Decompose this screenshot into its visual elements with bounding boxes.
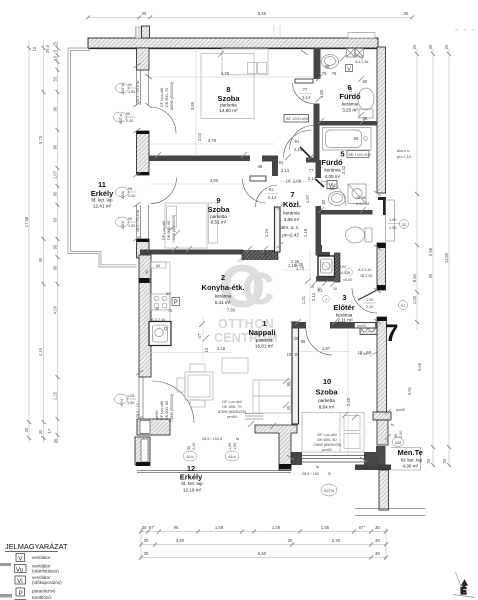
svg-text:3,91: 3,91: [407, 386, 412, 395]
kitchen counter strip: [150, 262, 170, 322]
svg-text:8: 8: [226, 85, 230, 94]
svg-text:2,42: 2,42: [348, 87, 353, 96]
svg-text:1: 1: [262, 319, 266, 328]
armchair nappali: [222, 358, 248, 373]
appliance: washing machine box entry: [318, 256, 335, 277]
svg-text:fa: fa: [236, 437, 240, 441]
svg-text:A5/a: A5/a: [121, 190, 125, 199]
svg-text:kerámia: kerámia: [215, 294, 232, 299]
edge bars bottom left: [0, 563, 11, 566]
svg-text:91: 91: [269, 187, 274, 192]
dim chain: right vertical lines: [417, 48, 449, 467]
svg-text:30: 30: [375, 538, 380, 543]
svg-text:28,5 / 94,5 fa: 28,5 / 94,5 fa: [136, 209, 140, 232]
svg-text:1,58: 1,58: [215, 525, 224, 530]
svg-text:8: 8: [348, 271, 350, 275]
svg-text:2,02: 2,02: [197, 132, 202, 141]
svg-text:30: 30: [24, 427, 29, 432]
svg-text:25: 25: [295, 352, 300, 357]
svg-text:DF Lux-uNi: DF Lux-uNi: [160, 401, 164, 420]
door size labels interior: [265, 87, 323, 301]
svg-text:65: 65: [354, 136, 359, 141]
svg-text:-0,02: -0,02: [340, 271, 348, 275]
wall: corridor/kitchen divider: [275, 207, 281, 252]
door leaf: bath5 door: [316, 179, 325, 187]
svg-text:10: 10: [286, 179, 291, 184]
svg-text:17,68: 17,68: [24, 216, 29, 227]
door arc: bath5: [321, 181, 346, 206]
svg-text:30: 30: [144, 538, 149, 543]
svg-text:A5T/d: A5T/d: [119, 114, 123, 124]
svg-text:2,40: 2,40: [399, 431, 403, 438]
svg-text:P: P: [19, 590, 23, 597]
appliance: stove kitchen: [151, 294, 170, 310]
wall: L-block left bottom: [137, 419, 170, 435]
room label: 2 Konyha: [202, 273, 245, 313]
dim labels: right chains: [407, 44, 449, 463]
annotation: nappali balcony door texts: [136, 393, 174, 422]
wall: stub at room9 top right: [262, 156, 278, 177]
svg-text:parketta: parketta: [318, 398, 335, 403]
svg-text:2,14: 2,14: [268, 251, 273, 260]
svg-text:1,00: 1,00: [366, 298, 373, 302]
svg-text:30: 30: [142, 11, 147, 16]
svg-text:+0,02: +0,02: [337, 265, 346, 269]
wall: left exterior upper segment A: [137, 48, 150, 70]
svg-text:3,80: 3,80: [210, 178, 219, 183]
svg-text:11: 11: [98, 180, 106, 189]
dim chain: left vertical lines: [29, 40, 58, 443]
window: nappali to balcony12: [245, 414, 263, 420]
svg-text:25: 25: [53, 41, 58, 46]
svg-text:DK 600- 70: DK 600- 70: [165, 88, 169, 107]
svg-text:A.3 2,44: A.3 2,44: [151, 318, 165, 322]
appliance: sink unit kitchen: [149, 322, 171, 346]
rug room 8: [201, 54, 254, 119]
wardrobe room 9: [209, 203, 218, 243]
window: room 8 balcony window: [137, 70, 149, 105]
wall: wc west: [316, 214, 322, 247]
svg-text:Vi: Vi: [17, 578, 23, 585]
svg-text:90: 90: [428, 273, 433, 278]
dim ticks: left chains: [27, 46, 60, 440]
svg-text:7,60: 7,60: [227, 308, 236, 313]
svg-text:96: 96: [53, 106, 58, 111]
small circle labels entry: [323, 269, 353, 303]
svg-text:90: 90: [145, 270, 149, 274]
wall: wc bottom stub: [316, 245, 331, 256]
svg-text:5,66: 5,66: [417, 362, 422, 371]
svg-text:1,31: 1,31: [301, 295, 306, 304]
svg-text:±0,00: ±0,00: [343, 278, 352, 282]
room label: 12 Erkely: [180, 464, 203, 493]
svg-text:2,05: 2,05: [389, 226, 396, 230]
svg-text:1,25: 1,25: [53, 391, 58, 400]
annotation: entry door size: [364, 298, 376, 309]
svg-text:2,14: 2,14: [308, 176, 317, 181]
svg-text:1,50: 1,50: [128, 90, 135, 94]
svg-text:30: 30: [288, 538, 293, 543]
parapet: balcony 11: [68, 48, 137, 267]
labels: kitchen small dims: [145, 264, 172, 313]
svg-text:11,85: 11,85: [444, 252, 449, 263]
dim labels: left chains (rotated): [24, 41, 58, 443]
svg-text:30: 30: [375, 551, 380, 556]
svg-text:1,00: 1,00: [389, 218, 396, 222]
svg-text:2,10: 2,10: [366, 305, 373, 309]
wall: block above terrace band: [376, 446, 386, 465]
sink bath5: [329, 192, 346, 206]
svg-text:70: 70: [322, 71, 327, 76]
svg-text:kerámia: kerámia: [324, 168, 341, 173]
svg-text:parketta: parketta: [210, 214, 227, 219]
svg-text:Vu: Vu: [16, 566, 24, 573]
svg-text:70: 70: [168, 309, 172, 313]
svg-text:48: 48: [258, 164, 263, 169]
svg-text:DK 600- 70: DK 600- 70: [222, 405, 241, 409]
wall: faint lines above band center: [274, 25, 280, 38]
annotation: Men.Te side: [391, 423, 403, 438]
svg-text:10: 10: [358, 350, 363, 355]
sink bath6: [322, 55, 339, 69]
symbol V box bath6: [346, 65, 353, 73]
slab: below terrace: [355, 509, 425, 516]
svg-text:1,87: 1,87: [322, 346, 331, 351]
wall: left exterior lower (kitchen) segment D: [139, 255, 151, 377]
annotation: room9 window DF text: [162, 214, 176, 243]
svg-text:1,00: 1,00: [412, 295, 417, 304]
svg-text:pm90: pm90: [357, 324, 367, 328]
svg-text:1,35: 1,35: [295, 262, 304, 267]
bed room 10: [302, 413, 364, 453]
svg-text:1,24: 1,24: [264, 228, 269, 237]
svg-text:25,5: 25,5: [45, 44, 50, 53]
svg-text:1,26: 1,26: [272, 525, 281, 530]
svg-text:10: 10: [287, 352, 292, 357]
svg-text:58: 58: [367, 350, 372, 355]
svg-text:BE 1200-600: BE 1200-600: [349, 153, 371, 157]
svg-text:5!: 5!: [328, 472, 331, 476]
wall: L balcony12 right: [255, 425, 297, 470]
svg-text:DK 600- 60: DK 600- 60: [165, 401, 169, 420]
svg-text:16,81 m²: 16,81 m²: [255, 344, 274, 349]
svg-text:95: 95: [128, 187, 132, 191]
svg-text:12,19 m²: 12,19 m²: [183, 488, 202, 493]
annotation: balcony12 window size + circles: [187, 437, 240, 450]
svg-text:A7d: A7d: [120, 399, 124, 406]
svg-text:10: 10: [333, 287, 337, 291]
svg-text:4,05 m²: 4,05 m²: [325, 174, 341, 179]
svg-text:pm90: pm90: [155, 411, 159, 421]
svg-text:2,14: 2,14: [302, 95, 311, 100]
svg-text:20.16!: 20.16!: [356, 196, 366, 200]
svg-text:3,25 m²: 3,25 m²: [342, 108, 358, 113]
room label: 9 Szoba: [207, 196, 230, 225]
svg-text:600W (65/60/20): 600W (65/60/20): [170, 81, 174, 110]
svg-text:3,90: 3,90: [176, 538, 185, 543]
svg-text:50: 50: [363, 79, 368, 84]
svg-text:95: 95: [174, 525, 179, 530]
svg-text:90: 90: [38, 257, 43, 262]
svg-text:törölköző-: törölköző-: [32, 595, 53, 600]
wall: notch above top band right: [348, 33, 375, 39]
label box: BE 1200-600 bath5: [347, 151, 371, 158]
svg-text:V: V: [18, 555, 23, 562]
svg-text:30: 30: [38, 429, 43, 434]
svg-text:Men.Te: Men.Te: [398, 448, 423, 457]
window: room10 bottom: [290, 452, 377, 466]
svg-text:90: 90: [128, 217, 132, 221]
svg-text:1,50: 1,50: [228, 443, 232, 450]
dim ticks: bottom chains: [139, 530, 388, 560]
room label: 11 Erkely: [91, 180, 114, 209]
svg-text:fd. ker. lap: fd. ker. lap: [91, 198, 113, 203]
svg-text:95: 95: [126, 112, 130, 116]
dim chain: top horizontal: [86, 11, 414, 20]
svg-text:52°: 52°: [166, 292, 172, 296]
svg-text:746W (65/50/20): 746W (65/50/20): [170, 393, 174, 422]
svg-text:3,88 m²: 3,88 m²: [284, 217, 300, 222]
symbol Vu box bath5: [327, 181, 337, 190]
svg-text:1,57: 1,57: [305, 194, 310, 203]
svg-text:A.5 2,40: A.5 2,40: [358, 268, 371, 272]
wall: room10 top left piece: [292, 322, 306, 329]
svg-text:pv=2,19: pv=2,19: [396, 155, 412, 159]
svg-text:2: 2: [325, 298, 327, 302]
svg-text:25: 25: [444, 44, 449, 49]
door arc: room8 lower door: [290, 126, 314, 150]
wall: right exterior segment lower: [377, 317, 387, 412]
wall: room10 top right piece with pm90: [330, 322, 377, 329]
svg-text:álm.s.s.:: álm.s.s.:: [397, 149, 411, 153]
svg-text:30: 30: [142, 525, 147, 530]
svg-text:1,50: 1,50: [233, 443, 237, 450]
wall: kitchen top (room9/kitchen): [140, 250, 243, 255]
svg-text:1,08: 1,08: [293, 179, 302, 184]
door arc: entry: [352, 288, 377, 313]
wall: left exterior segment C: [137, 239, 150, 258]
svg-text:90: 90: [53, 265, 58, 270]
legend Vi: [15, 576, 26, 584]
svg-text:7: 7: [385, 320, 398, 347]
door arc: bath6: [293, 83, 314, 104]
svg-text:5: 5: [53, 49, 58, 52]
svg-text:5,75: 5,75: [38, 135, 43, 144]
svg-text:30: 30: [375, 525, 380, 530]
svg-text:fa: fa: [316, 465, 320, 469]
svg-text:2,42: 2,42: [341, 165, 346, 174]
svg-text:60: 60: [156, 264, 160, 268]
svg-text:55: 55: [330, 186, 335, 191]
bed room 8: [222, 49, 268, 75]
dim chain: bottom horizontal 3 lines: [141, 528, 386, 560]
svg-text:(időkapcsolós): (időkapcsolós): [32, 580, 62, 585]
svg-text:A.4.2.48: A.4.2.48: [355, 60, 368, 64]
wall: hatched block kitchen top right: [242, 251, 278, 260]
svg-text:2,11 m²: 2,11 m²: [337, 318, 353, 323]
svg-text:28,5 / 12: 28,5 / 12: [136, 403, 140, 418]
annotation: room10 window DF text: [313, 433, 342, 452]
symbol: P box kitchen: [172, 298, 180, 307]
svg-text:28,5 / 154,5: 28,5 / 154,5: [202, 437, 222, 441]
svg-text:8,64 m²: 8,64 m²: [319, 405, 335, 410]
svg-text:1,19: 1,19: [303, 228, 308, 237]
svg-text:pm90: pm90: [227, 415, 237, 419]
svg-text:4,00: 4,00: [53, 305, 58, 314]
svg-text:DF Lux-uNi: DF Lux-uNi: [160, 88, 164, 107]
svg-text:6,50: 6,50: [258, 551, 267, 556]
svg-text:A1/d: A1/d: [186, 455, 193, 459]
svg-text:A.5.2.48: A.5.2.48: [356, 202, 369, 206]
room label: 7 Kozl: [281, 190, 301, 238]
svg-text:fd. ker. lap: fd. ker. lap: [181, 481, 203, 486]
svg-text:36: 36: [155, 307, 159, 311]
terrace edge lines: [391, 448, 421, 471]
svg-text:2,40: 2,40: [192, 443, 196, 450]
svg-text:77: 77: [309, 168, 314, 173]
interior dim labels: [190, 64, 372, 410]
svg-text:Közl.: Közl.: [283, 200, 301, 209]
shower bath5: [348, 184, 366, 204]
svg-text:12,41 m²: 12,41 m²: [93, 204, 112, 209]
door arc: room8 balcony door: [150, 107, 176, 133]
svg-text:4T: 4T: [197, 333, 202, 338]
svg-text:90: 90: [128, 83, 132, 87]
svg-text:fx: fx: [391, 423, 394, 427]
room label: 1 Nappali: [248, 319, 275, 349]
svg-text:30: 30: [426, 458, 431, 463]
bathtub bath5: [323, 128, 372, 151]
annotation: room10 bottom window: [302, 465, 331, 476]
svg-text:1,07: 1,07: [53, 170, 58, 179]
door arc: balcony12 door from nappali: [152, 381, 194, 423]
wall: room8 right mid: [314, 104, 320, 159]
wall: partition bath6/bath5: [316, 121, 378, 126]
svg-text:746W (65/50/20): 746W (65/50/20): [172, 214, 176, 243]
svg-text:9: 9: [216, 196, 220, 205]
svg-text:A1/d: A1/d: [228, 455, 235, 459]
window: room 9 balcony window: [137, 205, 149, 239]
shaft: beside entry right wall: [360, 324, 377, 335]
door arc: room9 balcony door: [151, 178, 177, 204]
annotation: A5/a circle room9 window: [116, 217, 129, 227]
svg-text:10: 10: [204, 347, 209, 352]
svg-text:78: 78: [332, 71, 337, 76]
svg-text:30: 30: [144, 551, 149, 556]
svg-text:4,18: 4,18: [217, 346, 226, 351]
svg-text:3: 3: [342, 293, 346, 302]
door leaf: room 9 door: [250, 176, 266, 181]
window: living room balcony door opening: [139, 377, 143, 419]
svg-text:2,14: 2,14: [268, 195, 277, 200]
annotation: entry level marks: [310, 265, 372, 291]
shaft boxes bath6 top: [347, 49, 364, 58]
svg-text:2,40: 2,40: [128, 194, 135, 198]
svg-text:25: 25: [294, 336, 299, 341]
wall: partition room8/room9: [149, 156, 250, 162]
svg-text:fd. ker. lap: fd. ker. lap: [401, 458, 423, 463]
svg-text:38: 38: [325, 64, 330, 69]
wall: bath west lower: [316, 206, 322, 215]
svg-text:3,79: 3,79: [208, 138, 217, 143]
dim ticks: right chains: [415, 52, 451, 467]
svg-text:pm90: pm90: [396, 408, 405, 412]
annotation: alm s.s right: [396, 149, 412, 159]
svg-text:G1: G1: [402, 223, 407, 227]
room label: 10 Szoba: [315, 377, 338, 410]
annotation: room8 window DF text (rotated): [160, 81, 174, 110]
dining table: [185, 372, 213, 400]
svg-text:91: 91: [279, 160, 284, 165]
legend P: [16, 588, 25, 596]
svg-text:91: 91: [318, 288, 323, 293]
wall: partition bath5/wc4: [316, 210, 373, 215]
svg-text:BE 1200-600: BE 1200-600: [286, 117, 308, 121]
wall: bath west upper (hall/bath5): [316, 160, 322, 178]
svg-text:Szoba: Szoba: [315, 388, 338, 397]
wall: terrace bottom band: [355, 465, 391, 471]
svg-text:30: 30: [428, 44, 433, 49]
svg-text:V: V: [347, 66, 351, 72]
svg-text:870W (65/50/20): 870W (65/50/20): [218, 410, 247, 414]
sofa nappali: [253, 380, 291, 413]
svg-text:(utánfutásos): (utánfutásos): [32, 569, 59, 574]
svg-text:1,25: 1,25: [127, 394, 134, 398]
annotation: french window right G1: [388, 218, 400, 230]
annotation: A5T/d circle room8 door: [114, 112, 127, 122]
door arc: room10: [306, 329, 333, 356]
door arc: room8 from hall: [284, 130, 312, 157]
svg-text:1,55: 1,55: [321, 525, 330, 530]
room label: Men.Te: [398, 448, 423, 469]
door leaf: room8 hall door diagonal: [300, 147, 311, 158]
svg-text:A5T/d: A5T/d: [121, 84, 125, 94]
svg-text:1B 2,26: 1B 2,26: [360, 274, 372, 278]
svg-text:10: 10: [53, 55, 58, 60]
svg-text:páraelszívó: páraelszívó: [32, 589, 56, 594]
annotation: nappali DF text: [218, 400, 247, 419]
svg-text:4,15: 4,15: [38, 347, 43, 356]
svg-text:É: É: [461, 586, 467, 596]
annotation: shower codes bath5: [356, 196, 369, 206]
wall: left exterior segment B: [137, 131, 150, 175]
svg-text:JELMAGYARÁZAT: JELMAGYARÁZAT: [5, 542, 68, 551]
svg-text:95: 95: [187, 446, 191, 450]
svg-text:A4T/d: A4T/d: [324, 489, 334, 493]
svg-text:55: 55: [53, 76, 58, 81]
svg-text:10: 10: [323, 377, 331, 386]
svg-text:2,14: 2,14: [281, 168, 290, 173]
svg-text:91: 91: [295, 139, 300, 144]
legend V: [16, 554, 25, 562]
room label: 6 Furdo: [339, 83, 361, 113]
svg-text:67°: 67°: [149, 525, 156, 530]
svg-text:DK 600- 60: DK 600- 60: [317, 438, 336, 442]
wall: room8 right upper: [314, 48, 321, 79]
svg-text:Nappali: Nappali: [248, 328, 275, 337]
svg-text:7: 7: [290, 190, 294, 199]
room label: 3 Eloter: [333, 293, 354, 323]
svg-text:90: 90: [53, 191, 58, 196]
toilet bath6: [358, 88, 374, 118]
svg-text:96: 96: [53, 144, 58, 149]
svg-text:10: 10: [32, 46, 37, 51]
svg-text:2,14: 2,14: [294, 147, 303, 152]
svg-text:pv=2,43: pv=2,43: [281, 233, 299, 238]
wall: below washing box: [316, 277, 334, 282]
wall: right block at terrace top: [373, 412, 391, 420]
svg-text:parketta: parketta: [256, 338, 273, 343]
